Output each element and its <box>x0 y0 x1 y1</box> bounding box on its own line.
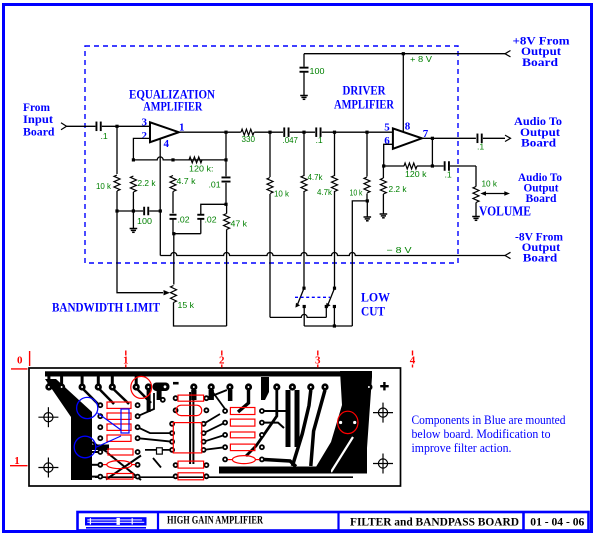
wire input to C1 <box>66 125 95 127</box>
label .02 first <box>178 215 190 225</box>
note components in blue <box>412 413 567 455</box>
label 120 k eq <box>189 164 214 174</box>
svg-text:DRIVER: DRIVER <box>343 83 387 98</box>
svg-text:47 k: 47 k <box>231 219 248 229</box>
label .02 second <box>205 215 217 225</box>
label BANDWIDTH LIMIT <box>52 300 160 315</box>
wire volume to ground <box>475 203 477 217</box>
pcb x trace 2 <box>106 456 141 480</box>
label +8V green <box>410 54 432 64</box>
svg-text:BANDWIDTH LIMIT: BANDWIDTH LIMIT <box>52 300 160 315</box>
pin 8 label <box>405 121 411 133</box>
node main 10k b branch <box>365 131 368 134</box>
label FILTER and BANDPASS BOARD <box>350 514 519 528</box>
svg-text:10 k: 10 k <box>274 189 290 199</box>
wire main to .01 <box>225 132 227 176</box>
svg-text:3: 3 <box>142 117 148 129</box>
pcb board outline <box>29 368 401 486</box>
resistor R 4.7k eq <box>170 176 176 192</box>
svg-text:2: 2 <box>142 130 148 142</box>
label HIGH GAIN AMPLIFIER <box>167 513 263 527</box>
pcb D diag <box>153 458 161 468</box>
svg-text:HIGH GAIN AMPLIFIER: HIGH GAIN AMPLIFIER <box>167 513 263 527</box>
label 4.7k b <box>317 187 333 197</box>
wire feedback row driver <box>384 165 476 167</box>
wire S1 contact down <box>303 307 305 327</box>
svg-text:.1: .1 <box>477 142 484 152</box>
pcb blue rect 1 <box>121 409 129 433</box>
potentiometer R 15k bandwidth <box>171 286 177 303</box>
pcb D outline <box>157 448 163 454</box>
wire feedback 120k row <box>133 157 226 160</box>
wire low cut return <box>270 307 326 318</box>
node pin8 supply <box>402 52 405 55</box>
node pin4 100cap <box>159 209 162 212</box>
resistor R 4.7k b <box>332 176 338 192</box>
pcb trace ic right diag b <box>204 435 226 442</box>
svg-text:LOW: LOW <box>361 290 390 305</box>
pcb trace pad10 thick <box>228 390 233 401</box>
capacitor C .01 <box>222 177 231 183</box>
node bottom switch rail <box>333 324 336 327</box>
wire 304 down to switch <box>303 191 305 287</box>
wire 2.2k driver to ground <box>382 194 384 214</box>
pcb ic bar 1 <box>286 390 291 447</box>
svg-text:10 k: 10 k <box>482 179 498 189</box>
pcb red circle marker 2 <box>338 411 358 433</box>
capacitor C .1 volume <box>444 161 450 171</box>
svg-text:120 k: 120 k <box>405 169 427 179</box>
pin 1 label <box>179 122 185 134</box>
wire .02b top to .01 node <box>201 204 226 214</box>
wire 367 branch <box>366 132 368 176</box>
wire .02 node down to 15k <box>173 234 175 285</box>
wiper arrow volume <box>480 191 510 196</box>
svg-text:CUT: CUT <box>361 304 385 319</box>
svg-text:.1: .1 <box>101 131 108 141</box>
wire switch bottom rail <box>304 325 352 327</box>
label .1 volume <box>445 170 452 180</box>
pcb red oval left <box>103 461 136 469</box>
wire 47k top lead <box>226 204 228 213</box>
capacitor C .047 <box>283 127 289 137</box>
resistor R 2.2k <box>130 176 136 192</box>
pcb diag ic up <box>204 414 220 424</box>
wire -8V rail <box>160 211 505 256</box>
label 10 k volume <box>482 179 498 189</box>
resistor R 10k b <box>364 177 370 193</box>
node 4.7k top <box>171 158 174 161</box>
ground symbol driver <box>380 214 388 218</box>
pcb trace pad2 diag <box>62 388 79 405</box>
label .047 <box>283 135 299 145</box>
pcb thick bus drop <box>261 377 269 400</box>
label 4.7k a <box>308 172 324 182</box>
pin 3 label <box>142 117 148 129</box>
wire pin8 riser <box>402 54 404 132</box>
wire 100 cap to ground <box>303 73 305 96</box>
label 100 eq <box>137 216 152 226</box>
ground symbol volume <box>472 217 480 221</box>
capacitor C .02 first <box>170 214 177 220</box>
label .1 series <box>316 135 323 145</box>
resistor R 47k <box>224 214 230 230</box>
ground symbol eq <box>130 229 138 233</box>
pin 5 label <box>384 121 390 133</box>
pcb component pads <box>97 395 264 479</box>
svg-text:below board. Modification to: below board. Modification to <box>412 427 551 441</box>
pin 7 label <box>423 128 429 140</box>
wire 304 branch <box>303 132 305 176</box>
svg-text:5: 5 <box>384 121 390 133</box>
capacitor C1 .1 input <box>96 122 102 132</box>
wire 367 to node <box>366 194 368 201</box>
label 100 supply <box>310 66 325 76</box>
BE logo <box>85 517 147 528</box>
switch S2 contact b <box>333 305 336 308</box>
wire 330 to .047 <box>254 131 283 133</box>
pin 4 label <box>164 138 170 150</box>
resistor R 10k a <box>267 178 273 194</box>
node main 4.7k b branch <box>333 131 336 134</box>
svg-text:.02: .02 <box>205 215 217 225</box>
wire wiper from ground node <box>117 211 163 293</box>
capacitor C 100 supply <box>300 67 309 73</box>
pcb right big copper pour <box>312 371 372 474</box>
capacitor C 100 eq ground <box>143 207 149 216</box>
svg-text:Board: Board <box>521 138 557 150</box>
arrow -8V rail end <box>505 252 511 258</box>
wire 4.7k to .02 cap <box>172 192 174 214</box>
node pin6 feedback <box>382 164 385 167</box>
wire out to arrow <box>483 137 505 139</box>
capacitor C .1 out <box>477 134 483 144</box>
potentiometer R 10k volume <box>473 187 479 203</box>
label Audio To Output Board 2 <box>518 172 562 205</box>
pcb trace pad8 stub <box>191 390 196 400</box>
svg-text:4.7 k: 4.7 k <box>177 176 197 186</box>
pcb slab diag a <box>92 442 107 452</box>
label DRIVER AMPLIFIER <box>334 83 394 112</box>
pcb mounting hole top-right <box>373 403 393 423</box>
pcb plus mark <box>380 382 389 390</box>
svg-text:Board: Board <box>23 127 55 139</box>
svg-text:.01: .01 <box>209 180 221 190</box>
pcb trace left ic row b <box>138 438 173 442</box>
label 330 <box>242 134 256 144</box>
ruler mark 2 <box>219 351 225 368</box>
wire out node down <box>431 138 433 166</box>
pcb trace oval thick <box>262 459 296 466</box>
switch S2 contact <box>325 305 328 308</box>
wire .02a bottom <box>172 219 174 234</box>
pcb trace left ic row a <box>138 427 173 433</box>
capacitor C .1 series <box>315 127 321 137</box>
capacitor C .02 second <box>197 214 204 220</box>
svg-text:0: 0 <box>17 355 23 367</box>
svg-text:100: 100 <box>310 66 325 76</box>
pcb fan trace 1 <box>238 390 249 412</box>
pcb trace right col row2 <box>262 423 284 428</box>
pcb bottom thin trace <box>95 476 353 478</box>
svg-text:.02: .02 <box>178 215 190 225</box>
op-amp U1B driver <box>393 128 422 148</box>
pcb left diagonal trace <box>45 379 92 480</box>
pcb trace pad5 diag <box>112 388 129 404</box>
wire pin2 to feedback node <box>133 138 150 160</box>
resistor R 4.7k a <box>301 176 307 192</box>
pcb ic vertical 2 <box>192 392 194 464</box>
pin 2 label <box>142 130 148 142</box>
pcb mounting hole top-left <box>38 407 58 427</box>
switch S1 pole <box>302 287 305 290</box>
svg-text:.1: .1 <box>445 170 452 180</box>
svg-text:10 k: 10 k <box>350 188 364 198</box>
wire 2.2k to ground node <box>132 192 134 211</box>
label VOLUME <box>479 204 531 219</box>
label 10 k b <box>350 188 364 198</box>
label 15 k <box>178 300 195 310</box>
svg-text:improve filter action.: improve filter action. <box>412 441 512 455</box>
svg-text:.047: .047 <box>283 135 299 145</box>
wire ground stub <box>132 211 134 229</box>
label From Input Board <box>23 102 55 139</box>
pcb slab link row5 <box>92 451 100 453</box>
wire ground node row <box>117 210 160 212</box>
switch S2 blade <box>326 288 335 307</box>
label .1 input cap <box>101 131 108 141</box>
title bar frame <box>78 512 589 531</box>
node main 4.7k branch <box>302 131 305 134</box>
label -8V green <box>387 245 412 255</box>
pcb trace left L up <box>138 393 154 416</box>
svg-text:6: 6 <box>384 135 390 147</box>
wire pin6 node to 2.2k <box>382 166 384 178</box>
pcb blob pad <box>153 383 170 392</box>
pcb plus pad trace <box>357 388 369 418</box>
wire 334 down to switch <box>334 191 336 287</box>
pcb slab link row7 <box>92 476 100 478</box>
label 2.2 k driver <box>389 184 408 194</box>
pcb top pad row <box>45 383 372 390</box>
svg-text:.1: .1 <box>316 135 323 145</box>
pcb trace left ic row c <box>145 449 172 451</box>
pin 6 label <box>384 135 390 147</box>
ruler mark 1 left <box>10 455 28 467</box>
pcb pour pads <box>339 421 356 424</box>
node main .01 branch <box>224 131 227 134</box>
resistor R 330 <box>241 129 254 135</box>
wire .1 to driver <box>322 131 393 133</box>
pcb minus mark <box>173 382 179 385</box>
wire 270 branch <box>269 132 271 177</box>
node 10k b bottom <box>366 199 369 202</box>
ground symbol 10k b <box>364 217 372 221</box>
pcb diag pad6 blue <box>136 388 151 403</box>
pcb blue circle 2 <box>74 436 96 458</box>
switch S2 pole <box>333 287 336 290</box>
wire .047 to .1 <box>290 131 315 133</box>
label -8V From Output Board <box>515 232 563 265</box>
svg-text:Board: Board <box>523 253 558 265</box>
wire to volume pot <box>475 166 477 187</box>
wire 334 branch <box>334 132 336 176</box>
svg-text:15 k: 15 k <box>178 300 195 310</box>
svg-text:VOLUME: VOLUME <box>479 204 531 219</box>
ruler mark 3 <box>315 351 321 368</box>
label 120 k driver <box>405 169 427 179</box>
node .02 bottom junction <box>172 232 175 235</box>
wire 15k bottom loop <box>174 303 227 327</box>
svg-text:AMPLIFIER: AMPLIFIER <box>143 99 202 114</box>
wire 352 riser <box>352 201 367 326</box>
wire pin6 <box>384 144 393 166</box>
label 10 k input <box>96 181 112 191</box>
pcb x trace 1 <box>107 453 141 481</box>
ruler mark 4 <box>410 351 416 368</box>
wire 47k down to bottom loop <box>226 230 228 327</box>
node driver out <box>431 137 434 140</box>
pcb diag 211 to 225 <box>211 390 225 409</box>
pcb trace ic top diag <box>206 390 227 398</box>
node pin2 feedback <box>132 158 135 161</box>
svg-text:Input: Input <box>23 114 53 126</box>
svg-text:+ 8 V: + 8 V <box>410 54 432 64</box>
op-amp U1A equalization amplifier <box>150 122 179 142</box>
pcb slab link row6 <box>92 464 100 466</box>
wire 270 down <box>269 194 271 317</box>
svg-text:4.7k: 4.7k <box>317 187 333 197</box>
label Audio To Output Board 1 <box>514 116 562 150</box>
switch S1 blade <box>295 288 304 307</box>
svg-text:− 8 V: − 8 V <box>387 245 412 255</box>
node 10k bottom <box>115 209 118 212</box>
ground symbol supply <box>300 96 308 100</box>
switch S1 contact <box>303 305 306 308</box>
pcb bottom bus trace <box>219 467 331 474</box>
label date 01-04-06 <box>530 514 584 528</box>
svg-text:10 k: 10 k <box>96 181 112 191</box>
pcb mounting hole bottom-left <box>38 458 58 478</box>
svg-text:330: 330 <box>242 134 256 144</box>
label 47 k <box>231 219 248 229</box>
wire C1 to opamp pin3 <box>102 125 150 127</box>
wire .02 bottom link <box>173 219 201 234</box>
pcb top bus trace <box>45 371 341 376</box>
wire 100 cap stub <box>303 54 305 67</box>
resistor R 2.2k driver <box>380 178 386 194</box>
label .1 out <box>477 142 484 152</box>
wire S2 contact b down <box>333 307 335 327</box>
resistor R 120k driver <box>404 163 417 169</box>
wire R 10k to ground node <box>116 191 118 211</box>
pcb red ic rounded outline <box>176 405 202 415</box>
svg-text:120 k:: 120 k: <box>189 164 214 174</box>
label +8V From Output Board <box>513 36 570 70</box>
pcb trace right col row1 <box>262 410 287 412</box>
ruler mark 1 <box>123 351 129 368</box>
pcb red oval right <box>228 456 260 464</box>
wiper arrow bandwidth <box>164 290 171 295</box>
arrow +8V rail end <box>505 51 511 57</box>
label 4.7 k eq <box>177 176 197 186</box>
node main 10k branch <box>268 131 271 134</box>
label EQUALIZATION AMPLIFIER <box>129 87 216 114</box>
label LOW CUT <box>361 290 390 319</box>
resistor R 120k eq feedback <box>189 157 202 163</box>
pcb trace pad9 stub <box>209 390 214 400</box>
svg-text:Components in Blue are mounted: Components in Blue are mounted <box>412 413 567 427</box>
input arrow <box>61 123 67 130</box>
node 2.2k bottom ground <box>132 209 135 212</box>
pcb mid bar <box>92 445 109 451</box>
pcb red component outlines <box>107 395 255 480</box>
pcb mounting hole bottom-right <box>373 454 393 474</box>
pcb trace ic right diag a <box>204 423 226 434</box>
wire junction down to R 10k <box>116 126 118 174</box>
pcb fan trace 4 <box>292 390 310 466</box>
wire opamp out to 330 <box>179 131 241 133</box>
label 2.2 k <box>138 178 157 188</box>
svg-text:100: 100 <box>137 216 152 226</box>
pcb trace pad4 diag <box>98 388 114 404</box>
pcb trace pad3 diag <box>82 388 99 405</box>
svg-text:AMPLIFIER: AMPLIFIER <box>334 97 394 112</box>
svg-text:4.7k: 4.7k <box>308 172 324 182</box>
ganged switch dashed link <box>295 296 330 298</box>
pcb blue link lines <box>96 413 122 448</box>
wire .01 to node <box>225 183 227 205</box>
node .01 top row <box>224 158 227 161</box>
svg-text:4: 4 <box>164 138 170 150</box>
svg-text:Board: Board <box>522 57 559 69</box>
resistor R 10k input bias <box>114 175 120 191</box>
svg-text:2.2 k: 2.2 k <box>389 184 408 194</box>
node input bias junction <box>115 125 118 128</box>
svg-text:01 - 04 - 06: 01 - 04 - 06 <box>530 514 584 528</box>
wire +8V rail <box>304 53 505 55</box>
pcb ic vertical 1 <box>189 392 191 464</box>
node 47k top <box>224 203 227 206</box>
wire pin4 down <box>159 139 161 211</box>
svg-text:8: 8 <box>405 121 411 133</box>
wire node to ground b <box>366 201 368 217</box>
label 10 k a <box>274 189 290 199</box>
wire driver out <box>422 137 476 139</box>
svg-text:From: From <box>23 102 50 114</box>
pcb pad148 drop <box>147 390 151 412</box>
pcb fan trace 5 <box>311 390 325 466</box>
pcb bus stubs <box>49 376 136 385</box>
svg-text:Board: Board <box>526 193 558 205</box>
svg-text:FILTER and BANDPASS BOARD: FILTER and BANDPASS BOARD <box>350 514 519 528</box>
ruler mark 0 <box>11 351 30 369</box>
pcb red circle marker 1 <box>131 376 152 398</box>
label .01 <box>209 180 221 190</box>
pcb ic bar 2 <box>295 390 300 447</box>
pcb blue circle 1 <box>77 397 98 418</box>
svg-text:2.2 k: 2.2 k <box>138 178 157 188</box>
dashed board-boundary box <box>85 46 458 263</box>
pcb trace blob stub <box>157 391 162 400</box>
pcb fan trace 2 <box>246 390 277 456</box>
node out feedback <box>431 164 434 167</box>
pcb trace ic right diag c <box>204 447 226 450</box>
arrow audio out <box>505 135 511 141</box>
